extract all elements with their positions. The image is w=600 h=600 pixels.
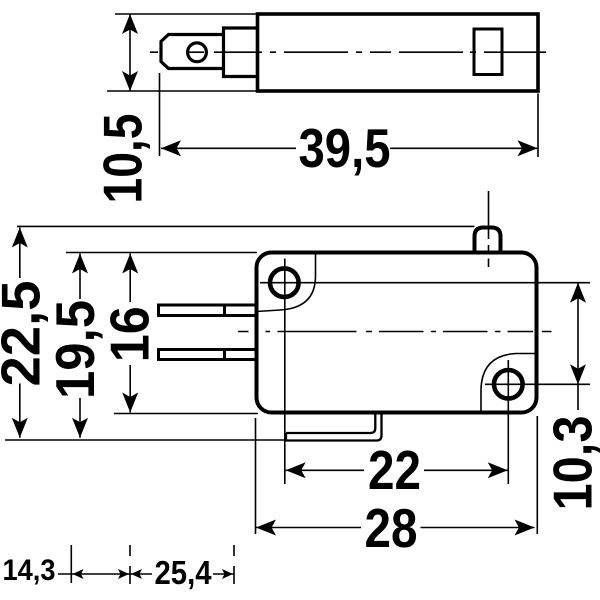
mounting hole bottom-right	[494, 370, 523, 399]
extension line top (10,5)	[115, 13, 258, 15]
dimension line 22	[286, 469, 508, 471]
dimension line 39,5	[161, 147, 296, 149]
svg-text:10,5: 10,5	[91, 114, 153, 204]
dimension line 10,3	[577, 283, 579, 410]
svg-text:39,5: 39,5	[299, 117, 391, 179]
lower terminal	[159, 350, 257, 360]
crosshair bottom-right hole horizontal / 10,3-extension	[485, 383, 590, 385]
extension line 2	[129, 545, 131, 584]
crosshair top-left hole vertical / 22-extension	[284, 259, 286, 485]
dimension line 10,5	[129, 14, 131, 91]
top view centerline	[150, 51, 546, 53]
extension line right (28)	[536, 416, 538, 534]
plunger button	[475, 228, 501, 254]
extension line plunger top (22,5)	[17, 225, 475, 227]
top view body	[258, 14, 539, 91]
svg-text:28: 28	[365, 497, 418, 559]
dimension line 22,5	[19, 228, 21, 438]
extension line 1	[70, 545, 72, 583]
extension line body bottom (16)	[114, 413, 258, 415]
boss outline top-left	[257, 253, 316, 312]
extension line body top (19,5 / 16)	[66, 252, 257, 254]
lower terminal step line	[223, 350, 226, 360]
top view latch rectangle	[474, 29, 502, 75]
upper terminal step line	[223, 305, 226, 316]
upper terminal	[159, 305, 257, 316]
svg-text:25,4: 25,4	[155, 554, 213, 591]
svg-text:19,5: 19,5	[44, 300, 106, 399]
crosshair top-left hole horizontal / 10,3-extension	[260, 282, 590, 284]
boss outline bottom-right	[481, 354, 537, 413]
mounting hole top-left	[270, 268, 299, 297]
svg-text:22: 22	[368, 439, 421, 501]
svg-text:14,3: 14,3	[3, 554, 56, 587]
crosshair bottom-right hole vertical / 22-extension	[507, 360, 509, 484]
extension line left (28)	[255, 418, 257, 534]
terminal blade narrow part	[161, 35, 224, 69]
extension line left (39,5)	[159, 73, 161, 156]
svg-text:16: 16	[98, 306, 160, 362]
dimension line 25,4	[130, 573, 234, 575]
extension line lever bottom (22,5 / 19,5)	[5, 439, 286, 441]
switch body	[257, 253, 537, 413]
extension line 3	[233, 545, 235, 584]
plunger centerline	[488, 191, 490, 267]
dimension line 16	[129, 254, 131, 413]
dimension line 28	[256, 527, 535, 529]
extension line right (39,5)	[537, 94, 539, 158]
extension line bottom (10,5)	[107, 90, 258, 92]
terminal blade hole	[188, 43, 207, 62]
main centerline	[238, 331, 552, 333]
dimension line 14,3	[58, 573, 130, 575]
lever arm	[285, 415, 382, 441]
terminal blade wide part	[224, 28, 258, 77]
dimension line 19,5	[79, 254, 81, 438]
svg-text:10,3: 10,3	[542, 416, 600, 511]
